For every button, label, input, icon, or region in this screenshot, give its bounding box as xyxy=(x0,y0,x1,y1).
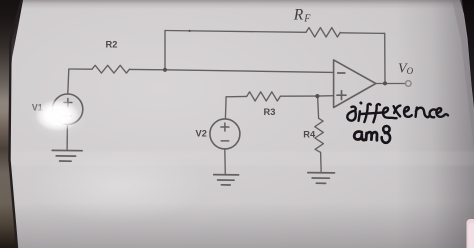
wire R3 to node B xyxy=(280,95,317,97)
source V1 minus sign xyxy=(64,115,72,117)
handwriting "difference": letter d xyxy=(347,107,355,121)
svg-text:F: F xyxy=(303,13,311,24)
left bezel dark edge line xyxy=(10,0,22,248)
handwriting "amp": letter a xyxy=(354,131,365,140)
shadow left of right wedge xyxy=(452,0,474,150)
left bezel strip xyxy=(0,0,22,248)
svg-text:R4: R4 xyxy=(303,130,316,140)
wire V2 bottom lead xyxy=(224,149,227,175)
handwriting: letter p top loop xyxy=(383,126,389,132)
handwriting: letter f1 xyxy=(364,104,370,122)
node A junction dot xyxy=(163,68,167,72)
ground below R4 xyxy=(308,173,335,184)
svg-text:R2: R2 xyxy=(106,40,118,50)
handwriting: letter f2 xyxy=(373,104,380,122)
resistor R3 xyxy=(247,92,281,101)
resistor R2 xyxy=(92,65,130,73)
ground below V2 xyxy=(214,175,239,185)
wire R4 to ground xyxy=(320,152,323,172)
handwriting: i dot xyxy=(359,102,362,105)
handwriting: letter n xyxy=(416,108,429,118)
op-amp U1 triangle xyxy=(334,60,376,108)
wire feedback vertical left xyxy=(164,31,166,70)
svg-text:R3: R3 xyxy=(264,107,276,117)
wire from V1 corner to R2 xyxy=(69,68,92,70)
wire node B down to R4 xyxy=(318,96,319,118)
handwriting: letter i xyxy=(359,111,360,121)
op-amp plus symbol xyxy=(337,91,346,100)
svg-text:V2: V2 xyxy=(196,128,207,138)
op-amp minus symbol xyxy=(338,72,345,74)
handwriting: letter m xyxy=(366,132,377,140)
source V1 circle xyxy=(52,94,82,124)
ground below V1 xyxy=(52,150,82,161)
handwriting: letter e3 xyxy=(436,108,448,117)
resistor RF xyxy=(306,28,340,37)
svg-text:R: R xyxy=(293,6,304,23)
wire top feedback left segment xyxy=(165,31,306,33)
source V2 circle xyxy=(210,119,240,149)
svg-text:V1: V1 xyxy=(32,103,43,113)
wire V1 bottom lead xyxy=(66,124,68,150)
wire V2 corner to R3 xyxy=(226,95,247,97)
output node junction dot xyxy=(383,81,387,85)
handwriting: letter e2 xyxy=(404,107,412,117)
handwriting: ff crossbar xyxy=(361,113,382,114)
wire node B to op-amp non-inverting input xyxy=(317,95,333,97)
handwriting: letter r xyxy=(394,106,401,116)
pink object bottom right xyxy=(467,219,474,248)
handwriting: letter c xyxy=(430,109,435,117)
svg-text:O: O xyxy=(407,66,414,76)
wire R3 corner down to V2 top xyxy=(224,97,227,119)
wire R2 to node A xyxy=(130,68,166,70)
wire node A to op-amp inverting input xyxy=(165,70,334,73)
handwriting: letter p bottom loop xyxy=(382,133,390,143)
small dot on top wire xyxy=(189,30,191,32)
top-right black wedge xyxy=(460,0,474,108)
source V1 plus sign xyxy=(64,99,72,107)
resistor R4 (vertical) xyxy=(315,118,324,152)
wire top feedback right segment xyxy=(340,32,384,35)
glare reflection over V1 xyxy=(35,100,80,132)
wire V1 top lead xyxy=(68,69,69,94)
source V2 plus sign xyxy=(221,123,229,131)
left bezel top corner dark overlay xyxy=(0,0,23,112)
handwriting: letter e1 xyxy=(383,108,397,119)
wire op-amp output xyxy=(376,83,406,85)
wire feedback vertical right xyxy=(384,33,386,83)
source V2 minus sign xyxy=(221,140,229,142)
node B junction dot xyxy=(315,94,319,98)
output terminal open circle xyxy=(406,81,412,87)
